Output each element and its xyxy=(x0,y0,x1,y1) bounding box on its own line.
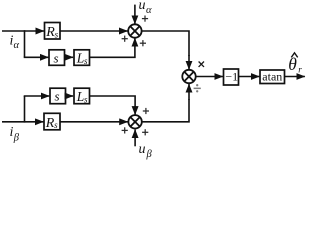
block Rs (alpha) xyxy=(45,23,61,41)
plus sign summer2 left xyxy=(122,127,128,133)
svg-text:β: β xyxy=(146,149,153,160)
arrow into summer 1 bottom xyxy=(134,38,136,45)
svg-text:s: s xyxy=(54,50,59,65)
wire summer2 to multiplier bottom xyxy=(142,99,189,122)
label theta hat r xyxy=(288,53,302,75)
block atan xyxy=(260,69,285,83)
block -1 xyxy=(224,69,239,85)
svg-text:r: r xyxy=(298,65,302,75)
multiplier junction (circle with X) xyxy=(182,70,195,83)
wire s to Ls (beta) xyxy=(66,95,74,97)
svg-text:u: u xyxy=(139,0,146,13)
node branch point beta xyxy=(24,96,26,123)
wire i_alpha input rail xyxy=(2,30,44,32)
svg-text:s: s xyxy=(84,56,88,66)
plus sign summer1 left xyxy=(122,36,128,42)
svg-text:β: β xyxy=(13,133,20,144)
svg-text:u: u xyxy=(139,142,146,157)
block Ls (beta) xyxy=(74,88,90,104)
svg-text:atan: atan xyxy=(262,69,282,83)
label i_alpha xyxy=(10,34,20,52)
plus sign summer1 bottom xyxy=(140,40,146,46)
wire i_beta input rail xyxy=(2,121,43,123)
plus sign summer2 bottom xyxy=(142,129,148,135)
svg-text:−1: −1 xyxy=(225,70,238,84)
label i_beta xyxy=(10,125,20,144)
wire -1 to atan xyxy=(239,76,260,78)
block Rs (beta) xyxy=(44,113,60,131)
arrow into multiplier top xyxy=(188,55,190,69)
wire Rs to summer 1 xyxy=(60,30,127,32)
plus sign summer2 top xyxy=(143,108,149,114)
svg-text:α: α xyxy=(14,40,20,51)
block Ls (alpha) xyxy=(74,50,90,66)
wire branch to s block (beta) xyxy=(24,95,50,97)
wire Ls to summer 1 bottom xyxy=(90,44,135,57)
wire multiplier to -1 block xyxy=(196,76,223,78)
wire s to Ls (alpha) xyxy=(65,56,74,58)
wire Ls to summer 2 top xyxy=(90,96,135,107)
svg-text:s: s xyxy=(84,95,88,105)
wire Rs to summer 2 xyxy=(60,121,128,123)
arrow into multiplier bottom xyxy=(188,84,190,100)
svg-text:θ: θ xyxy=(288,54,297,74)
wire summer1 to multiplier xyxy=(142,31,189,56)
plus sign u_alpha xyxy=(142,16,148,22)
wire u_beta up into summer 2 xyxy=(134,130,136,147)
node branch point alpha xyxy=(24,30,26,57)
block s (beta) xyxy=(50,88,66,104)
label divide xyxy=(194,84,201,92)
label u_beta xyxy=(139,142,153,160)
summing junction 2 (circle with X) xyxy=(128,115,141,128)
svg-text:s: s xyxy=(55,89,60,104)
wire branch to s block (alpha) xyxy=(24,56,49,58)
output wire theta xyxy=(285,76,305,78)
label u_alpha xyxy=(139,0,153,16)
svg-text:s: s xyxy=(54,120,58,130)
block s (alpha) xyxy=(49,50,65,66)
summing junction 1 (circle with X) xyxy=(128,24,141,37)
label x (multiply) xyxy=(199,62,204,67)
wire u_alpha down into summer 1 xyxy=(134,5,136,24)
arrow into summer 2 top xyxy=(134,106,136,115)
svg-text:α: α xyxy=(146,5,152,16)
svg-text:s: s xyxy=(55,29,59,39)
